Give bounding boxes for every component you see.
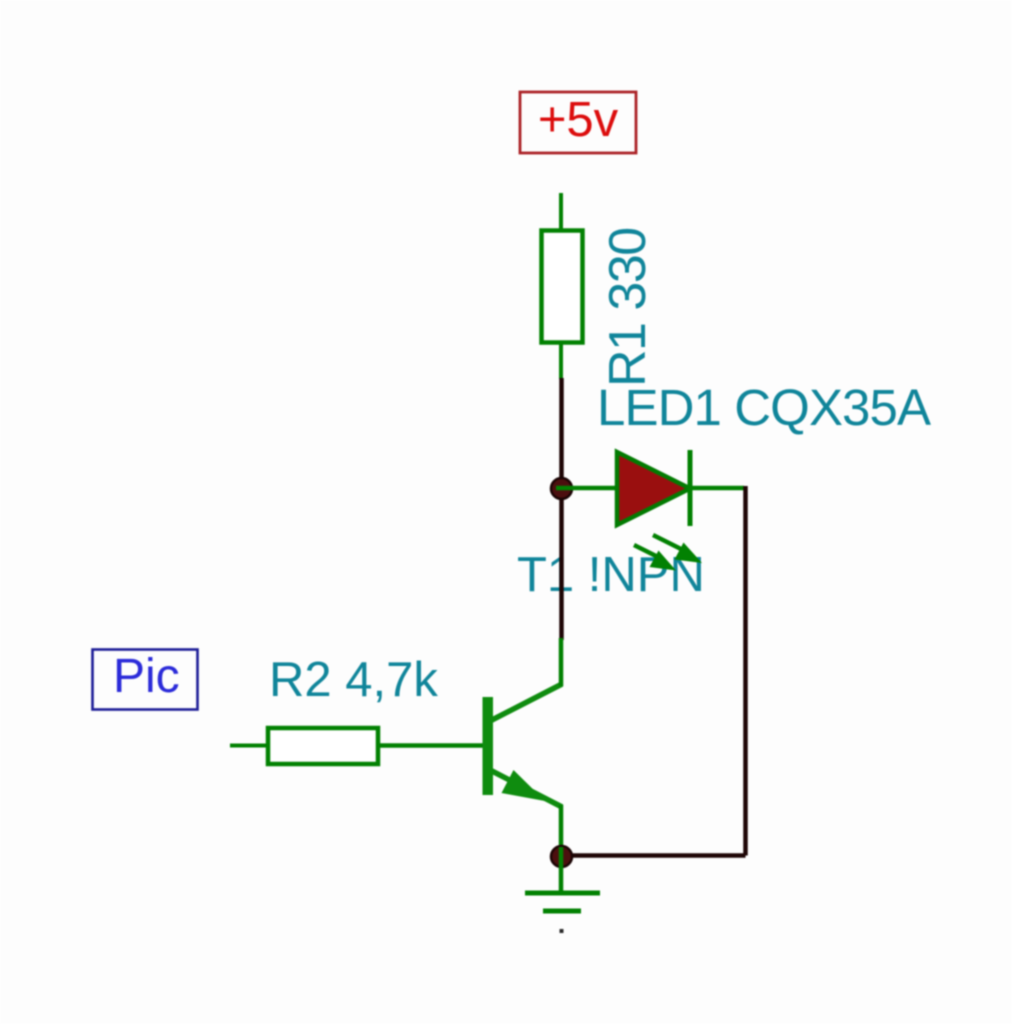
transistor T1 emitter diagonal <box>490 770 562 807</box>
svg-text:Pic: Pic <box>113 650 180 703</box>
ground origin mark <box>560 929 564 933</box>
supply +5v box <box>520 92 636 153</box>
LED arrow 1 <box>653 535 681 549</box>
LED arrow 2 <box>634 545 656 556</box>
wire LED cathode to right corner <box>690 486 744 491</box>
wire +5v to R1 <box>559 193 563 230</box>
ground bar 1 <box>525 891 600 896</box>
resistor R2 <box>268 728 378 764</box>
LED LED1 triangle <box>617 452 690 525</box>
svg-text:R1 330: R1 330 <box>599 228 657 387</box>
wire Pic to R2 <box>230 744 267 748</box>
ground bar 2 <box>543 909 581 914</box>
wire collector vertical (green) <box>559 638 564 686</box>
transistor T1 emitter arrowhead <box>502 770 546 801</box>
resistor R1 <box>542 231 583 343</box>
transistor T1 collector diagonal <box>490 684 562 721</box>
wire emitter to node B <box>559 805 564 850</box>
node B junction dot <box>551 846 572 867</box>
svg-text:+5v: +5v <box>538 93 619 147</box>
wire bottom horizontal (dark) <box>561 853 746 858</box>
transistor T1 base bar <box>483 697 494 795</box>
wire node B to ground <box>559 847 564 893</box>
wire R2 to T1 base <box>378 743 483 748</box>
node Pic box <box>93 650 198 710</box>
svg-text:R2 4,7k: R2 4,7k <box>269 653 438 707</box>
wire right side vertical (dark) <box>743 486 748 856</box>
LED LED1 cathode bar <box>688 450 693 526</box>
node A junction dot <box>551 478 572 499</box>
wire R1 bottom stub <box>559 343 563 379</box>
svg-text:LED1 CQX35A: LED1 CQX35A <box>597 379 931 436</box>
wire R1 to node A (dark) <box>559 378 564 640</box>
wire node A to LED anode <box>556 486 618 491</box>
